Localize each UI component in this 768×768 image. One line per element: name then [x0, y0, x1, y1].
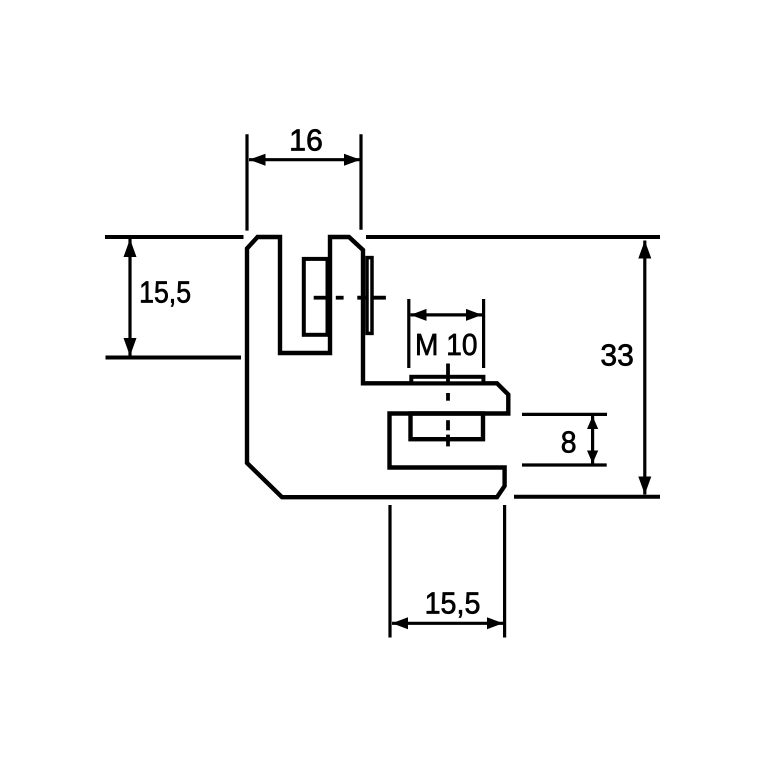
horizontal screw centerline dash 2 [336, 296, 344, 300]
clamp pad rectangle [304, 259, 328, 335]
vertical screw centerline dash 1 [446, 393, 450, 401]
dim 15,5 bottom extension line right [503, 505, 506, 638]
dim 16 extension line left [245, 134, 248, 230]
dim 8 arrow up [587, 416, 598, 429]
vertical screw centerline dash 2 [446, 420, 450, 430]
dim 8 extension line bottom [522, 463, 607, 466]
horizontal screw centerline tick [357, 296, 386, 300]
svg-text:8: 8 [561, 424, 577, 459]
dim M10 arrow right [466, 309, 482, 321]
dim 33 arrow down [638, 477, 651, 495]
nut [411, 414, 484, 440]
dim 8 arrow down [587, 451, 598, 464]
dim 15,5 left arrow down [124, 338, 137, 356]
dim 8 extension line top [522, 413, 607, 416]
dim 33 arrow up [638, 241, 651, 259]
washer on tongue [411, 377, 483, 384]
svg-text:15,5: 15,5 [425, 585, 481, 620]
dim 33 dimension line [643, 241, 646, 495]
vertical screw centerline tick bottom [446, 435, 450, 447]
top surface line right [366, 235, 660, 239]
dim 16 extension line right [359, 134, 362, 229]
horizontal screw centerline dash 1 [314, 296, 327, 300]
dim 15,5 bottom arrow right [487, 617, 503, 629]
dim 15,5 left dimension line [128, 239, 131, 356]
dim M10 dimension line [411, 313, 483, 316]
dim 16 arrow left [249, 154, 266, 166]
dim 15,5 bottom extension line left [388, 505, 391, 638]
svg-text:15,5: 15,5 [139, 274, 191, 309]
dim M10 extension line right [482, 299, 485, 368]
vertical screw centerline tick top [446, 364, 450, 383]
dim 15,5 bottom arrow left [392, 617, 408, 629]
dim 16 arrow right [344, 154, 361, 166]
top surface line left [105, 235, 244, 239]
dim M10 extension line left [407, 299, 410, 368]
clamp body outline [247, 237, 508, 497]
bottom-right surface line [514, 495, 660, 499]
side washer plate [367, 258, 372, 334]
dim 15,5 bottom dimension line [392, 622, 503, 625]
dim M10 arrow left [411, 309, 427, 321]
dim 16 dimension line [249, 158, 361, 161]
svg-text:M 10: M 10 [415, 327, 478, 362]
svg-text:33: 33 [600, 338, 634, 373]
dim 15,5 left arrow up [124, 239, 137, 257]
svg-text:16: 16 [289, 122, 323, 157]
dim 8 dimension line [591, 416, 594, 464]
mid-left surface line [106, 356, 242, 360]
